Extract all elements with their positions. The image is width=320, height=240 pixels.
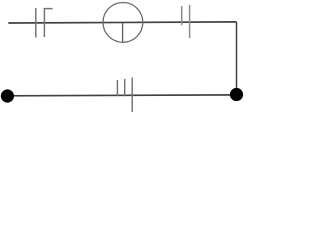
capacitor C1 (top left, right plate with top tick) (36, 8, 53, 38)
node B (right junction dot) (230, 88, 243, 101)
wire (bottom horizontal between node A and node B) (7, 94, 236, 97)
capacitor C2 (top right, short left plate, long right plate) (182, 5, 190, 38)
wire (top horizontal from left edge to right corner, chord through circle) (8, 22, 236, 23)
source G1 (circle element with vertical plunger) (103, 3, 143, 43)
node A (left terminal dot) (1, 89, 14, 102)
wire (right vertical drop to node B) (236, 22, 238, 95)
capacitor C3 (bottom, two short plates above wire and one long plate) (117, 78, 132, 113)
